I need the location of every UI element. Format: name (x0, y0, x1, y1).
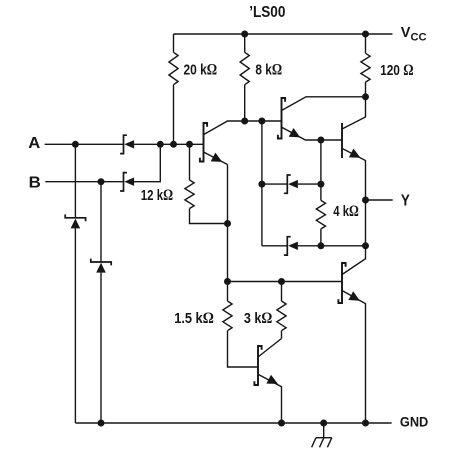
wire node3 (228, 281, 343, 283)
wire input A lead (45, 143, 124, 145)
wire VCC rail (174, 33, 393, 35)
svg-text:GND: GND (400, 413, 428, 429)
transistor Q5 collector (342, 246, 366, 275)
wire D5 anode (298, 183, 321, 185)
diode D5 bar (284, 175, 291, 193)
resistor R4 12k (185, 180, 194, 209)
wire 4k bottom lead (320, 229, 322, 246)
wire 12k bottom (190, 209, 228, 224)
node VCC-8k dot (241, 31, 248, 38)
transistor Q2 emitter arrow (289, 128, 301, 137)
transistor Q4 emitter arrow (349, 149, 361, 158)
wire Q2 base down (261, 121, 263, 246)
wire D5 cathode (262, 183, 287, 185)
diode D1 A-input arrow (124, 140, 134, 148)
diode D2 B-input bar (120, 173, 127, 191)
wire 8k top (244, 34, 246, 52)
transistor Q5 emitter (342, 291, 366, 424)
transistor Q3 emitter (258, 374, 282, 423)
wire 20k top (173, 34, 175, 52)
node Q2-collector dot (362, 93, 369, 100)
resistor R5 4k (316, 200, 325, 229)
svg-text:120 Ω: 120 Ω (380, 62, 413, 79)
node3 right dot (278, 278, 285, 285)
transistor Q4 emitter (342, 148, 366, 200)
node GND Q5 dot (362, 420, 369, 427)
diode D4 B-clamp bar (91, 259, 111, 266)
wire 3k bottom lead (281, 331, 283, 339)
wire input B lead (45, 181, 123, 183)
wire 20k bottom (173, 85, 175, 145)
svg-text:12 kΩ: 12 kΩ (141, 187, 173, 204)
wire A-clamp upper (74, 144, 76, 218)
wire B-clamp upper (100, 182, 102, 262)
wire 4k top lead (320, 184, 322, 200)
node2 squaring dot (258, 118, 265, 125)
transistor Q3 emitter arrow (266, 375, 278, 384)
node B-diode join dot (157, 141, 164, 148)
ground symbol (312, 423, 332, 447)
svg-text:4 kΩ: 4 kΩ (333, 203, 359, 220)
wire 120 top (365, 34, 367, 53)
resistor R6 1.5k (223, 301, 232, 331)
wire 1.5k bottom (228, 331, 259, 367)
diode D3 A-clamp bar (65, 214, 85, 221)
transistor Q5 base bar (338, 263, 345, 303)
wire A diode to node1 (134, 143, 204, 145)
node3 left dot (224, 278, 231, 285)
node GND sym dot (320, 420, 327, 427)
node 12k join dot (186, 141, 193, 148)
node 4k top dot (317, 181, 324, 188)
node Y-lower dot (362, 242, 369, 249)
svg-text:B: B (29, 174, 41, 191)
transistor Q5 emitter arrow (348, 291, 360, 300)
node 12k-emitter dot (224, 220, 231, 227)
wire 120 bottom (365, 82, 367, 97)
diode D6 bar (284, 237, 291, 255)
wire D6 anode (298, 245, 321, 247)
wire 4k feed (320, 140, 322, 184)
svg-text:A: A (28, 135, 40, 152)
svg-text:1.5 kΩ: 1.5 kΩ (174, 310, 214, 327)
wire B-clamp lower (100, 273, 102, 423)
wire Q1 emitter down (227, 165, 229, 282)
resistor R1 20k (169, 52, 178, 84)
wire 3k top lead (281, 282, 283, 302)
diode D5 arrow (288, 180, 298, 188)
node GND Q3 dot (278, 420, 285, 427)
diode D4 B-clamp arrow (96, 263, 106, 273)
diode D2 B-input arrow (124, 178, 134, 186)
wire 12k top (189, 144, 191, 180)
node2 8k dot (241, 118, 248, 125)
node A-clamp dot (72, 141, 79, 148)
svg-text:8 kΩ: 8 kΩ (255, 62, 282, 79)
node Q2-emitter dot (317, 137, 324, 144)
transistor Q2 emitter (282, 127, 343, 140)
wire GND rail (75, 422, 391, 424)
wire B diode to node1 (134, 144, 160, 181)
resistor R7 3k (277, 301, 286, 331)
wire A-clamp lower (74, 228, 76, 423)
wire node2 to Q2 base (245, 120, 282, 122)
resistor R3 120 (361, 53, 370, 82)
wire 1.5k top lead (227, 282, 229, 302)
transistor Q1 collector (204, 121, 245, 135)
svg-text:20 kΩ: 20 kΩ (184, 62, 218, 79)
wire Y lead (366, 199, 393, 201)
transistor Q2 collector (282, 97, 366, 111)
wire 4k node to Y line (321, 245, 366, 247)
transistor Q1 emitter (204, 152, 228, 165)
transistor Q4 collector (342, 97, 366, 129)
diode D3 A-clamp arrow (71, 219, 81, 229)
svg-text:VCC: VCC (401, 25, 427, 44)
node squaring upper dot (258, 181, 265, 188)
node Y dot (362, 197, 369, 204)
wire 8k bottom (244, 85, 246, 121)
diode D6 arrow (288, 242, 298, 250)
node 20k join dot (170, 141, 177, 148)
diode D1 A-input bar (120, 135, 127, 153)
svg-text:Y: Y (401, 192, 411, 209)
node 4k bottom dot (317, 242, 324, 249)
svg-text:’LS00: ’LS00 (249, 4, 285, 21)
transistor Q3 base bar (254, 346, 261, 385)
transistor Q3 collector (258, 339, 282, 358)
wire Y to lower node (365, 200, 367, 246)
transistor Q1 emitter arrow (211, 153, 223, 162)
transistor Q4 base bar (341, 123, 343, 158)
node B-clamp dot (98, 178, 105, 185)
wire D6 cathode (262, 245, 287, 247)
transistor Q1 base bar (200, 123, 207, 162)
node VCC-120 dot (362, 31, 369, 38)
transistor Q2 base bar (278, 98, 285, 139)
node GND B-clamp dot (98, 420, 105, 427)
svg-text:3 kΩ: 3 kΩ (244, 310, 272, 327)
resistor R2 8k (240, 52, 249, 84)
